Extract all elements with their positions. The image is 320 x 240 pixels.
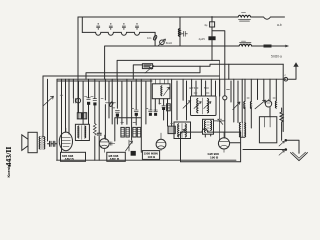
speaker frame <box>28 132 37 152</box>
wire IF3 link <box>214 120 225 122</box>
IF can T1 <box>75 124 89 140</box>
svg-text:10n: 10n <box>147 36 152 40</box>
node <box>153 65 155 67</box>
mixer arrows right of osc <box>233 102 240 110</box>
output transformer T4 <box>239 123 240 138</box>
tube V4 output <box>218 138 229 149</box>
gang arrow <box>255 100 266 109</box>
coil L4 on x178 <box>178 29 180 37</box>
rotated model number <box>4 147 13 178</box>
wavetrap W1 circle <box>160 40 165 45</box>
speaker transformer coils <box>38 137 41 150</box>
svg-text:500: 500 <box>204 86 209 90</box>
wire bus3 y79.2 main <box>57 78 286 80</box>
svg-text:4/8 500: 4/8 500 <box>189 86 199 90</box>
jack terminal (pickup) <box>76 98 81 103</box>
capacitor C7 (block, filled) <box>208 36 215 40</box>
svg-text:5m50-a: 5m50-a <box>271 55 282 59</box>
svg-text:4µ25: 4µ25 <box>199 37 206 41</box>
speaker cone <box>22 135 28 151</box>
filter box BW <box>142 64 152 69</box>
resistor R8 wavy <box>93 124 96 136</box>
capacitor C12 (black) <box>131 151 136 156</box>
trimmer cap row y100 <box>87 98 91 100</box>
coil L5 <box>244 102 245 109</box>
bandfilter box BF1 <box>152 84 170 99</box>
svg-text:c: c <box>285 74 287 77</box>
svg-text:4µ: 4µ <box>204 23 208 27</box>
coil L3 antenna coil with taps <box>82 32 155 35</box>
svg-text:6kHz: 6kHz <box>166 41 173 45</box>
trimmer C4 <box>136 23 137 24</box>
small cap on x99 <box>97 133 101 135</box>
arrow over T2 <box>179 129 186 135</box>
padder cap C13 with arrow <box>217 60 222 140</box>
trimmer C1 <box>98 23 99 24</box>
label V3 <box>144 152 158 159</box>
resistor R5 box <box>168 126 175 133</box>
resistor R3 R4 pair <box>133 127 136 137</box>
label V4 <box>208 152 220 159</box>
wire to earth lead <box>252 45 289 47</box>
oscillator box OSC <box>191 96 217 116</box>
label V1 <box>62 154 75 161</box>
wire label-row links <box>61 151 63 153</box>
output stage box <box>181 129 241 162</box>
trimmer C2 <box>110 23 111 24</box>
wire below node <box>224 100 226 138</box>
wire busA top rail <box>78 16 238 18</box>
terminal dot 2 <box>285 148 288 151</box>
coupling arrow left <box>44 96 54 105</box>
osc tuning arrow <box>183 101 191 109</box>
misc value smudges <box>60 12 275 123</box>
choke L2 <box>239 44 252 46</box>
wire <box>211 27 213 36</box>
svg-text:443/II: 443/II <box>4 147 13 167</box>
wire down from coils <box>245 108 270 129</box>
wire lower terminal feed <box>243 149 285 151</box>
right box edge <box>282 64 284 131</box>
wire tube to transformer <box>230 142 240 144</box>
wire nested rail y60.4 <box>117 60 219 79</box>
IF can T3 (ladder) <box>203 119 214 134</box>
tube V1 (oval, AB2) <box>59 132 72 151</box>
potentiometer P1 <box>126 140 133 151</box>
wire bus2 y75.3 <box>43 75 219 77</box>
wire corner down to busB <box>154 32 156 46</box>
wire right column verticals <box>245 79 276 101</box>
node junction on busA <box>211 16 213 18</box>
wire bottom bus <box>57 159 237 161</box>
value labels above <box>189 86 209 90</box>
capacitor pair C10 C11 (striped blocks) <box>77 113 81 119</box>
aerial arrow up <box>288 63 298 79</box>
svg-text:190 B: 190 B <box>210 156 219 160</box>
resistor R-ant (filled) <box>264 45 272 48</box>
node circle on x225 <box>223 96 227 100</box>
mains cable arrow <box>291 153 308 161</box>
IF can T2 <box>174 122 191 139</box>
wire left outer vertical <box>77 17 79 113</box>
wire bus1 y71.8 <box>86 66 200 79</box>
tube V2 (EBC) <box>99 139 109 149</box>
wire from L1 to antenna lead a <box>251 17 285 19</box>
terminal dot 1 <box>285 139 288 142</box>
wire can to tube V4 <box>205 134 210 137</box>
resistor R6 zigzag <box>280 108 283 125</box>
choke L1 (top right mains choke) <box>238 15 251 17</box>
series caps C14 C15 <box>48 141 58 146</box>
variable cap on corner wire <box>153 35 157 41</box>
svg-text:Koenig: Koenig <box>7 164 11 178</box>
capacitor C row mid <box>115 111 119 113</box>
wire branch to x225 <box>212 31 225 96</box>
coil L6 <box>250 102 251 109</box>
svg-text:a-b: a-b <box>277 23 282 27</box>
capacitor C6 electrolytic <box>210 22 215 27</box>
coil L7 <box>275 101 276 108</box>
capacitor C5 beside L4 <box>180 31 187 36</box>
wire speaker feeds <box>43 76 48 141</box>
label V2 <box>108 154 120 161</box>
wire to mains arrow <box>287 140 299 153</box>
tube V3 <box>156 139 166 149</box>
wire <box>211 40 213 60</box>
resistor R1 R2 vertical pair <box>121 127 124 137</box>
wire down from busA <box>211 17 213 22</box>
trimmer arrow under box <box>145 67 152 73</box>
wire vertical x178 <box>179 17 181 46</box>
wire riser to coil line <box>81 17 83 32</box>
svg-text:190 B: 190 B <box>148 155 156 159</box>
terminal circle <box>284 77 288 81</box>
wire busB second rail <box>105 46 239 79</box>
wire nested rail y64.9 <box>133 65 142 79</box>
wire bus3b doubled <box>57 79 152 160</box>
rectifier tube V5 <box>265 101 271 107</box>
wire comb verticals <box>62 64 243 160</box>
wire rail y66.2 to right box <box>153 64 284 66</box>
trimmer C3 <box>123 23 124 24</box>
power transformer box <box>259 117 276 143</box>
resistor R7 <box>167 104 171 111</box>
